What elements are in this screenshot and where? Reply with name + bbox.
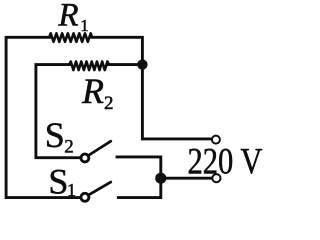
svg-text:S: S [48,161,68,201]
svg-text:1: 1 [67,180,76,200]
svg-text:2: 2 [104,93,114,114]
svg-text:1: 1 [80,16,89,35]
svg-text:R: R [81,71,104,111]
svg-text:2: 2 [64,137,74,158]
svg-text:R: R [57,0,78,33]
svg-text:220 V: 220 V [188,142,263,183]
svg-text:S: S [45,115,65,155]
